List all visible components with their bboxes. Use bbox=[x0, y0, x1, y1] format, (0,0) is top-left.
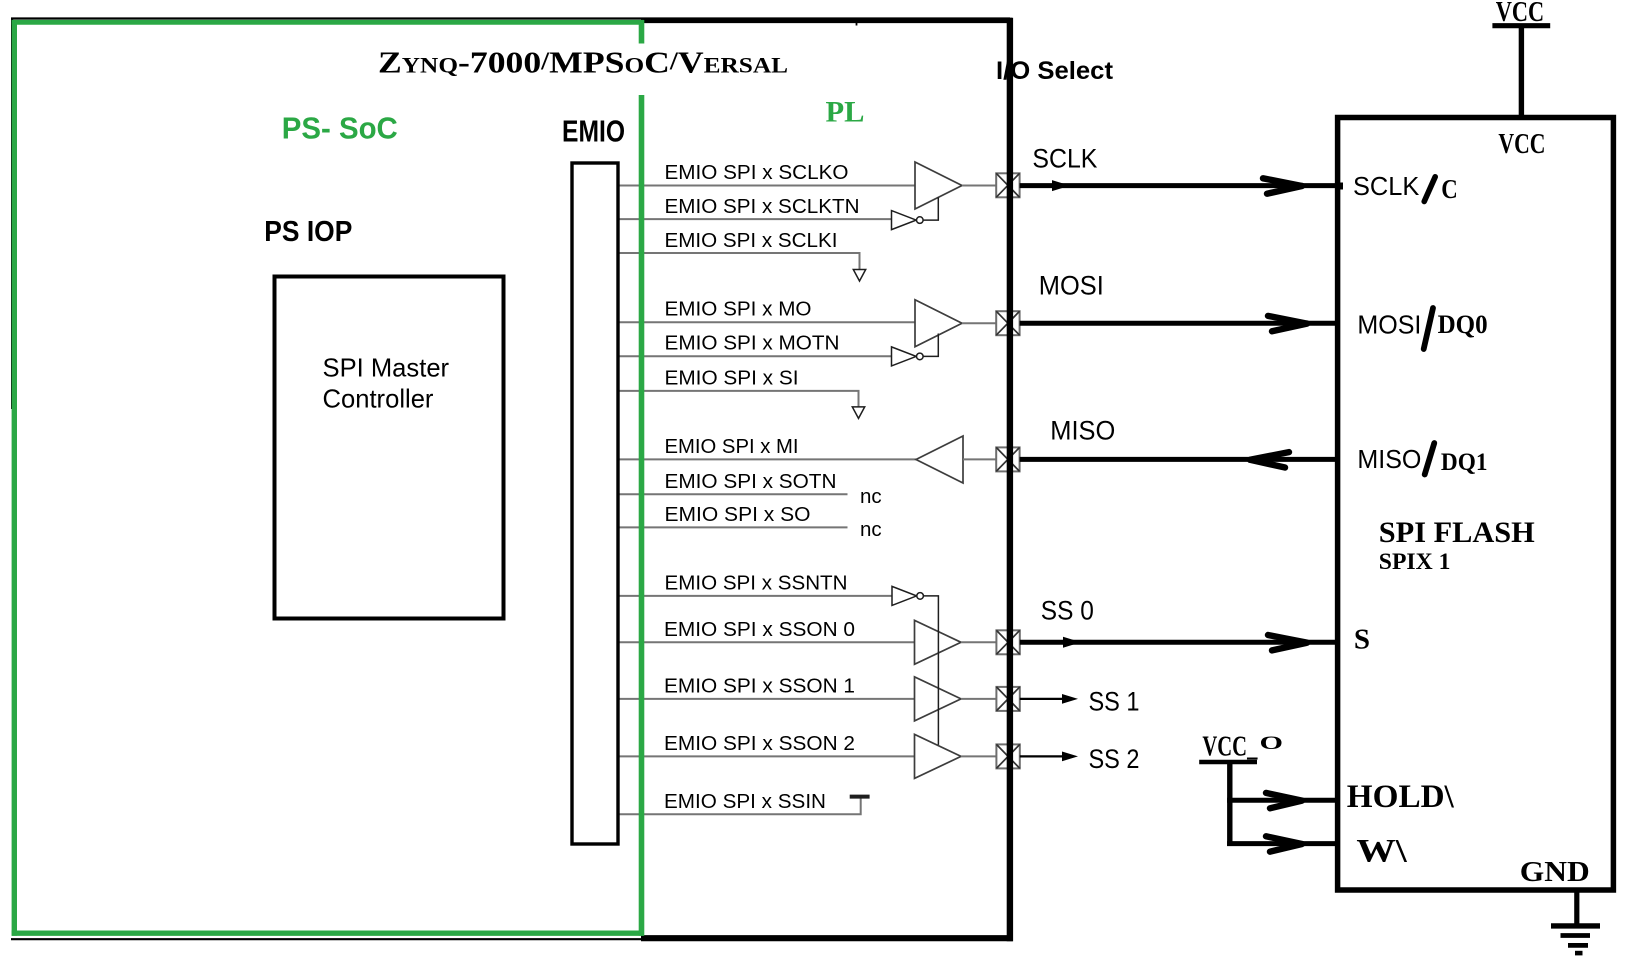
input arrowhead SCLKI bbox=[853, 270, 865, 282]
SPI Master Controller box bbox=[275, 277, 504, 619]
wire SCLK thick bbox=[1020, 183, 1340, 188]
wire SS 1 bbox=[1020, 698, 1064, 700]
arrowhead SS 1 bbox=[1062, 694, 1078, 704]
svg-text:HOLD\: HOLD\ bbox=[1347, 779, 1455, 815]
inverter SSNTN bbox=[892, 586, 917, 605]
svg-text:EMIO SPI x SSNTN: EMIO SPI x SSNTN bbox=[665, 572, 848, 595]
svg-text:SPI FLASH: SPI FLASH bbox=[1379, 517, 1535, 549]
svg-text:GND: GND bbox=[1520, 857, 1590, 888]
tri-state buffer SSON 2 bbox=[915, 734, 962, 778]
svg-text:EMIO SPI x SSIN: EMIO SPI x SSIN bbox=[664, 790, 826, 813]
svg-text:PS- SoC: PS- SoC bbox=[282, 110, 398, 145]
big arrowhead MOSI bbox=[1268, 316, 1307, 331]
wire SSON 0 buffer to pad bbox=[961, 641, 997, 643]
ground symbol bbox=[1551, 926, 1600, 953]
svg-text:EMIO SPI x SSON 1: EMIO SPI x SSON 1 bbox=[664, 675, 855, 698]
PS-SoC green box bottom border bbox=[12, 931, 644, 936]
input buffer MI (points left) bbox=[916, 436, 963, 483]
I/O pad MOSI bbox=[996, 311, 1019, 335]
PL box bottom border thin under green bbox=[11, 938, 642, 940]
arrowhead SS 2 bbox=[1062, 752, 1078, 762]
svg-text:MISO: MISO bbox=[1357, 444, 1421, 474]
input arrowhead SI bbox=[852, 407, 864, 419]
inverter MOTN bbox=[892, 347, 917, 366]
PL box bottom border thick bbox=[641, 935, 1013, 941]
svg-text:EMIO SPI x MI: EMIO SPI x MI bbox=[665, 435, 799, 458]
svg-text:C: C bbox=[1441, 173, 1458, 204]
wire MI pad to buffer bbox=[963, 458, 997, 460]
svg-text:EMIO SPI x MOTN: EMIO SPI x MOTN bbox=[665, 332, 840, 355]
svg-text:EMIO SPI x SSON 0: EMIO SPI x SSON 0 bbox=[664, 618, 855, 641]
PL box top border thick segment bbox=[641, 18, 1012, 23]
svg-text:SCLK: SCLK bbox=[1032, 143, 1097, 174]
wire VCC to SPI FLASH bbox=[1519, 27, 1524, 116]
wire VCC_O vertical bbox=[1227, 762, 1232, 846]
PS-SoC green box top border bbox=[12, 20, 644, 25]
PL box Zynq-7000/MPSoC/Versal top border thin bbox=[11, 17, 1010, 19]
svg-text:W\: W\ bbox=[1356, 834, 1407, 870]
wire EMIO SPI x MI bbox=[619, 458, 917, 460]
wire EMIO SPI x SI bbox=[619, 391, 859, 407]
svg-text:nc: nc bbox=[860, 485, 882, 508]
svg-text:SPIX 1: SPIX 1 bbox=[1379, 549, 1451, 575]
wire MO buffer to pad bbox=[962, 322, 997, 324]
wire EMIO SPI x SCLKTN bbox=[619, 218, 892, 220]
wire EMIO SPI x SOTN bbox=[619, 493, 848, 495]
svg-text:PL: PL bbox=[826, 97, 865, 129]
tri-state buffer SSON 0 bbox=[915, 620, 962, 664]
wire EMIO SPI x SSON 0 bbox=[619, 641, 915, 643]
wire VCC_O to W bbox=[1227, 841, 1340, 846]
wire SSON 1 buffer to pad bbox=[961, 698, 997, 700]
wire MOTN inverter to MO buffer enable bbox=[923, 334, 938, 357]
svg-text:SCLK: SCLK bbox=[1353, 171, 1420, 201]
big arrowhead SCLK bbox=[1263, 178, 1302, 193]
big arrowhead SS 0 bbox=[1268, 635, 1307, 650]
wire SSNTN inverter output to SSON buffer enables bbox=[923, 596, 938, 745]
wire EMIO SPI x MO bbox=[619, 321, 916, 323]
svg-text:SS 0: SS 0 bbox=[1041, 595, 1094, 626]
svg-text:EMIO SPI x MO: EMIO SPI x MO bbox=[665, 298, 812, 321]
small arrowhead SS 0 bbox=[1063, 637, 1081, 648]
wire EMIO SPI x SSNTN bbox=[619, 595, 893, 597]
svg-text:PS IOP: PS IOP bbox=[264, 216, 352, 248]
wire stub dot SCLK pin bbox=[1335, 183, 1343, 190]
svg-text:O: O bbox=[1260, 733, 1284, 754]
EMIO connector bar bbox=[572, 163, 618, 844]
tie-off bar SSIN bbox=[850, 795, 870, 799]
arrowhead HOLD bbox=[1266, 793, 1302, 808]
svg-text:VCC: VCC bbox=[1498, 128, 1545, 160]
wire SCLKO buffer to pad bbox=[962, 185, 997, 187]
svg-text:EMIO: EMIO bbox=[562, 114, 625, 149]
small arrowhead SCLK bbox=[1052, 180, 1070, 191]
tri-state buffer MO bbox=[915, 300, 962, 347]
wire MOSI thick bbox=[1020, 321, 1340, 326]
svg-text:S: S bbox=[1354, 623, 1370, 655]
svg-text:SS 1: SS 1 bbox=[1089, 685, 1140, 716]
wire EMIO SPI x SSON 2 bbox=[619, 755, 915, 757]
SPI FLASH box bbox=[1338, 118, 1614, 891]
svg-text:VCC_: VCC_ bbox=[1202, 731, 1257, 763]
wire GND stub bbox=[1574, 890, 1579, 925]
wire SCLKTN inverter to SCLKO buffer enable bbox=[923, 197, 938, 220]
svg-text:EMIO SPI x SCLKO: EMIO SPI x SCLKO bbox=[665, 161, 849, 184]
PS-SoC green box right border lower segment bbox=[639, 95, 645, 936]
svg-text:Controller: Controller bbox=[323, 386, 434, 414]
I/O pad SS 2 bbox=[996, 744, 1019, 768]
wire EMIO SPI x SSON 1 bbox=[619, 698, 915, 700]
wire EMIO SPI x SO bbox=[619, 526, 848, 528]
svg-text:EMIO SPI x SSON 2: EMIO SPI x SSON 2 bbox=[664, 732, 855, 755]
svg-text:MISO: MISO bbox=[1050, 415, 1115, 446]
svg-text:nc: nc bbox=[860, 518, 882, 541]
svg-text:MOSI: MOSI bbox=[1039, 269, 1104, 300]
svg-text:Zynq-7000/MPSoC/Versal: Zynq-7000/MPSoC/Versal bbox=[378, 45, 788, 80]
wire SSON 2 buffer to pad bbox=[961, 755, 997, 757]
I/O pad SS 1 bbox=[996, 687, 1019, 711]
tri-state buffer SSON 1 bbox=[915, 677, 962, 721]
PS-SoC green box right border upper segment bbox=[639, 20, 645, 44]
svg-text:EMIO SPI x SO: EMIO SPI x SO bbox=[665, 503, 811, 526]
big arrowhead MISO (points left) bbox=[1250, 452, 1289, 467]
svg-text:MOSI: MOSI bbox=[1357, 309, 1421, 339]
svg-text:SS 2: SS 2 bbox=[1089, 743, 1140, 774]
wire MISO thick bbox=[1020, 457, 1340, 462]
svg-text:DQ1: DQ1 bbox=[1441, 447, 1488, 476]
PL box left border thin upper segment bbox=[11, 18, 13, 409]
svg-text:EMIO SPI x SOTN: EMIO SPI x SOTN bbox=[665, 470, 837, 493]
wire SS 2 bbox=[1020, 755, 1064, 757]
tick artifact on top border bbox=[856, 21, 858, 26]
wire SS 0 thick bbox=[1020, 640, 1340, 645]
wire EMIO SPI x SCLKO bbox=[619, 185, 916, 187]
wire EMIO SPI x MOTN bbox=[619, 355, 892, 357]
I/O pad SS 0 bbox=[996, 630, 1019, 654]
PL box right border thick bbox=[1007, 18, 1013, 942]
inverter SCLKTN bbox=[892, 211, 917, 230]
svg-text:EMIO SPI x SI: EMIO SPI x SI bbox=[665, 366, 799, 389]
wire VCC_O to HOLD bbox=[1227, 798, 1340, 803]
I/O pad MISO bbox=[996, 447, 1019, 471]
svg-text:DQ0: DQ0 bbox=[1438, 309, 1488, 339]
svg-text:EMIO SPI x SCLKI: EMIO SPI x SCLKI bbox=[665, 229, 838, 252]
PS-SoC green box left border bbox=[12, 20, 17, 936]
svg-text:EMIO SPI x SCLKTN: EMIO SPI x SCLKTN bbox=[665, 195, 860, 218]
tri-state buffer SCLKO bbox=[915, 162, 962, 209]
wire EMIO SPI x SCLKI bbox=[619, 253, 860, 269]
wire EMIO SPI x SSIN bbox=[619, 799, 861, 815]
svg-text:I/O Select: I/O Select bbox=[996, 57, 1114, 85]
arrowhead W bbox=[1266, 836, 1302, 851]
svg-text:SPI Master: SPI Master bbox=[323, 354, 450, 382]
I/O pad SCLK bbox=[996, 173, 1019, 197]
